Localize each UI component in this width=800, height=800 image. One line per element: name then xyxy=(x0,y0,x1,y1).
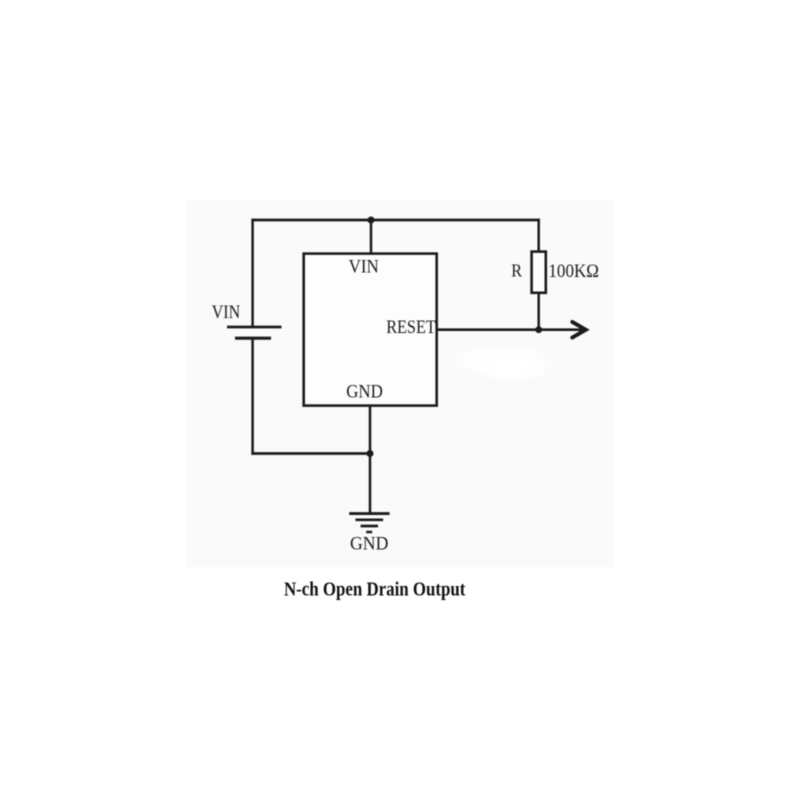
wire bottom rail xyxy=(251,452,371,455)
label GND (ground symbol) xyxy=(350,534,388,555)
wire GND pin drop xyxy=(369,406,372,455)
wire VIN pin drop xyxy=(370,220,373,254)
caption N-ch Open Drain Output xyxy=(284,579,466,601)
label R xyxy=(511,260,522,280)
pin label RESET xyxy=(386,317,436,338)
pin label VIN (IC) xyxy=(349,257,379,278)
node junction bottom GND xyxy=(367,450,374,457)
pin label GND (IC) xyxy=(346,382,383,403)
label VIN (battery) xyxy=(212,302,241,323)
wire ground stem xyxy=(369,454,372,514)
schematic photo background xyxy=(186,200,614,567)
ground xyxy=(349,514,389,532)
node junction top VIN xyxy=(368,217,375,224)
wire resistor bottom to RESET net xyxy=(537,293,540,331)
wire top rail VIN xyxy=(251,219,540,222)
watermark smudge xyxy=(450,343,554,382)
battery VIN xyxy=(227,327,282,338)
svg-text:R: R xyxy=(511,260,522,280)
wire resistor branch top xyxy=(537,219,540,253)
wire RESET output xyxy=(437,328,584,331)
label 100KΩ xyxy=(548,261,599,282)
svg-text:RESET: RESET xyxy=(386,317,436,338)
svg-text:VIN: VIN xyxy=(349,257,379,278)
resistor R 100KΩ xyxy=(532,252,546,293)
svg-text:N-ch Open Drain Output: N-ch Open Drain Output xyxy=(284,579,466,601)
wire left vertical lower (battery - to bottom rail) xyxy=(251,340,254,455)
svg-text:VIN: VIN xyxy=(212,302,241,323)
wire left vertical upper (battery + to top rail) xyxy=(251,219,254,326)
node junction RESET xyxy=(535,326,542,333)
svg-text:GND: GND xyxy=(346,382,383,403)
op-amp U1 (IC box) xyxy=(304,254,437,406)
svg-text:100KΩ: 100KΩ xyxy=(548,261,599,282)
svg-text:GND: GND xyxy=(350,534,388,555)
arrow RESET output xyxy=(572,322,586,338)
